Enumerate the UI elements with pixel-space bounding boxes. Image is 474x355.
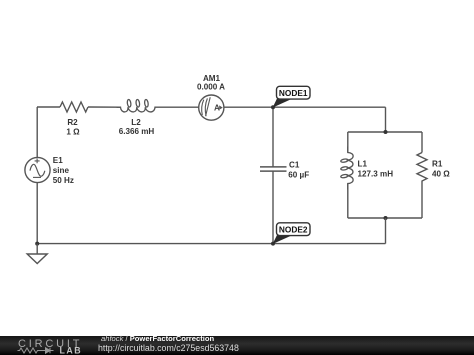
svg-text:L1: L1 [358,160,368,169]
footer bar [0,336,474,355]
svg-text:60 µF: 60 µF [288,170,309,179]
junction dot at ground node [35,242,39,246]
wire: L1 branch top lead [347,132,349,153]
svg-text:0.000 A: 0.000 A [197,83,225,92]
svg-text:50 Hz: 50 Hz [53,176,74,185]
node NODE1 flag [273,86,310,107]
inductor L2 [117,99,160,112]
svg-text:1 Ω: 1 Ω [66,128,80,137]
footer credit line 1 [101,334,214,343]
svg-text:sine: sine [53,166,70,175]
svg-text:R2: R2 [67,118,78,127]
wire: top rail of parallel group [348,131,422,133]
svg-text:40 Ω: 40 Ω [432,170,450,179]
svg-text:L2: L2 [131,118,141,127]
wire: R1 branch top lead [421,132,423,153]
wire: AM1 to NODE1 junction and on to right corner [223,106,386,108]
junction dot NODE1 [271,105,275,109]
node NODE2 flag [273,223,310,244]
logo schematic resistor [18,348,43,353]
wire: top-left corner horizontal run to R2 [37,106,60,108]
resistor R1 [417,153,427,185]
wire: L1 branch bottom lead [347,184,349,219]
resistor R2 [60,102,88,112]
inductor L1 [340,147,353,190]
svg-text:127.3 mH: 127.3 mH [358,170,394,179]
wire: right vertical from top wire to parallel top rail [385,107,387,132]
voltage source E1 [25,157,50,182]
footer credit line 2 (url) [98,343,239,353]
svg-text:A: A [214,103,220,112]
svg-text:R1: R1 [432,160,443,169]
wire: right vertical from bottom rail down to bottom wire [385,218,387,244]
svg-text:NODE1: NODE1 [279,88,308,98]
wire: capacitor branch C1 vertical top [272,107,274,167]
logo diode [43,348,54,353]
wire: L2 to AM1 [159,106,199,108]
wire: bottom rail of parallel group [348,217,422,219]
wire: R1 branch bottom lead [421,184,423,218]
wire: capacitor branch C1 vertical bottom [272,171,274,244]
svg-text:NODE2: NODE2 [279,224,308,234]
wire: left vertical from corner down to E1 [36,107,38,158]
svg-text:6.366 mH: 6.366 mH [119,127,155,136]
wire: R2 to L2 [88,106,121,108]
ammeter AM1 [199,95,224,120]
svg-text:C1: C1 [289,161,300,170]
capacitor C1 [260,167,287,171]
wire: E1 down to ground junction [36,183,38,244]
wire: bottom rail from ground junction to right corner [37,243,385,245]
junction dot bottom rail [384,216,388,220]
svg-text:E1: E1 [53,156,63,165]
ground [27,244,47,264]
junction dot NODE2 [271,242,275,246]
junction dot top rail [384,130,388,134]
svg-text:LAB: LAB [60,346,83,355]
